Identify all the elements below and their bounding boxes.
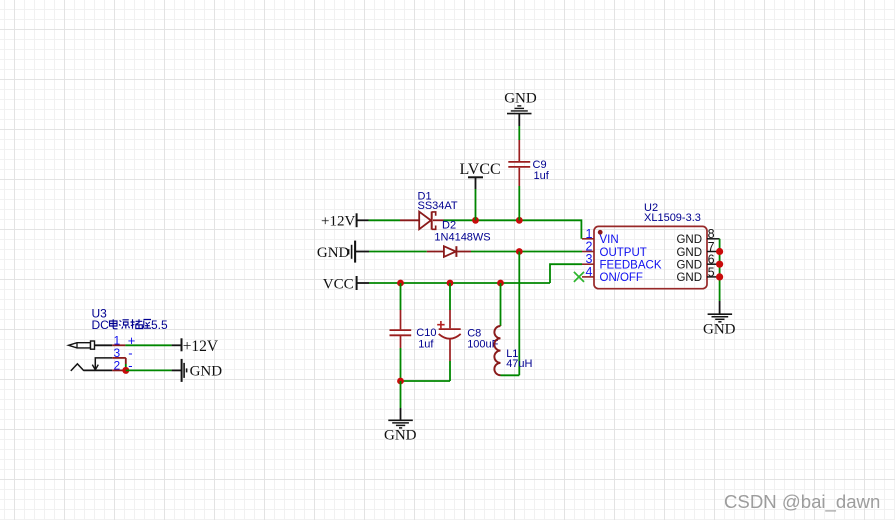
wire L1 top from rail (500, 283, 502, 326)
pin1 indicator dot (598, 230, 603, 235)
capacitor C10 lead bottom (400, 336, 402, 348)
diode D1 SS34AT body (419, 212, 436, 230)
wire stub GND (right) (172, 369, 181, 371)
svg-text:OUTPUT: OUTPUT (600, 247, 647, 259)
pin stub U2 pin1 (582, 238, 594, 240)
svg-text:VIN: VIN (600, 234, 619, 246)
wire +12V to D1 (369, 219, 401, 221)
junction dot pin7 (716, 248, 723, 255)
junction dot at switch node top (516, 217, 523, 224)
port bar +12V (right) (181, 338, 183, 351)
wire LVCC junction to C9 junction (476, 219, 520, 221)
pin lead U3 pin2 (112, 369, 126, 371)
pin stub U2 pin8 (707, 238, 720, 240)
wire U3 pin1 to +12V (125, 344, 171, 346)
capacitor C9 lead bottom (518, 168, 520, 186)
svg-text:GND: GND (676, 272, 702, 284)
wire C8 bottom to bottom wire (449, 361, 451, 381)
svg-text:2: 2 (114, 358, 121, 372)
svg-text:GND: GND (317, 245, 350, 261)
diode D1 lead anode (400, 219, 419, 221)
junction dot pin6 (716, 261, 723, 268)
diode D1 lead cathode (433, 219, 444, 221)
junction dot bottom GND node (397, 378, 404, 385)
junction dot at LVCC (472, 217, 479, 224)
capacitor C8 plate curved (439, 334, 461, 339)
wire VCC rail (369, 282, 550, 284)
junction dot U3 pin2/3 (122, 367, 129, 374)
capacitor C8 plate straight (439, 328, 461, 330)
pin stub U2 pin5 (707, 276, 720, 278)
no-connect X on pin4 (574, 272, 584, 282)
svg-text:FEEDBACK: FEEDBACK (600, 260, 662, 272)
wire C9 to +12V rail (518, 186, 520, 220)
wire stub VCC (357, 282, 369, 284)
ground port bars (left GND) (349, 241, 356, 263)
wire stub LVCC (475, 177, 477, 189)
svg-text:5.5: 5.5 (151, 318, 168, 332)
pin stub U2 pin3 (582, 263, 594, 265)
wire U2 GND pins vertical (719, 239, 721, 301)
wire U3 pin2 to GND (126, 369, 172, 371)
wire OUTPUT junction to U2 pin2 (519, 251, 582, 253)
svg-text:5: 5 (708, 265, 715, 279)
svg-text:GND: GND (384, 428, 417, 444)
svg-text:1uf: 1uf (418, 338, 434, 350)
inductor L1 coil (494, 326, 500, 375)
wire C9 junction to corner (519, 220, 581, 239)
junction dot C8 top (447, 280, 454, 287)
svg-text:C9: C9 (533, 159, 547, 171)
svg-text:D2: D2 (442, 219, 456, 231)
pin lead U3 pin1 (112, 344, 125, 346)
wire stub top GND (518, 114, 520, 126)
svg-text:1N4148WS: 1N4148WS (434, 232, 490, 244)
wire bottom C10-C8 (401, 380, 451, 382)
svg-text:+12V: +12V (321, 214, 355, 230)
ground flag GND (U2 right) (708, 314, 733, 322)
capacitor C8 lead bottom (449, 339, 451, 361)
ground port bars (right GND) (182, 359, 187, 382)
connector U3 pin2 spring contact (71, 364, 84, 371)
ground flag GND (top, inverted) (507, 106, 532, 114)
wire top GND to C9 (518, 126, 520, 140)
wire D2 to OUTPUT junction (471, 251, 519, 253)
pin stub U2 pin7 (707, 251, 720, 253)
svg-text:GND: GND (676, 247, 702, 259)
connector U3 pin1 line (95, 344, 113, 346)
svg-text:GND: GND (676, 260, 702, 272)
port bar LVCC (468, 176, 483, 178)
svg-text:LVCC: LVCC (460, 161, 501, 178)
pin lead U3 pin3-pin2 vertical (125, 358, 127, 364)
svg-text:47uH: 47uH (506, 358, 532, 370)
svg-text:GND: GND (504, 91, 537, 107)
diode D2 lead cathode (457, 251, 471, 253)
ground flag GND (bottom) (388, 420, 413, 428)
hanzi glyph zuo (143, 320, 151, 330)
svg-text:C10: C10 (416, 327, 436, 339)
hanzi glyph cha (131, 319, 143, 329)
svg-text:SS34AT: SS34AT (418, 200, 458, 212)
junction dot switch node at D2 row (516, 248, 523, 255)
capacitor C9 lead top (518, 140, 520, 161)
svg-text:GND: GND (676, 234, 702, 246)
junction dot pin5 (716, 273, 723, 280)
svg-text:1uf: 1uf (534, 170, 550, 182)
wire VCC rail up jog to FEEDBACK (550, 264, 582, 283)
wire C10 top from rail (400, 283, 402, 310)
svg-text:+12V: +12V (183, 338, 219, 355)
port bar +12V (left) (356, 213, 358, 227)
svg-text:4: 4 (586, 265, 593, 279)
connector U3 barrel pin (69, 341, 95, 349)
wire stub +12V port (357, 219, 369, 221)
wire stub bottom GND (400, 408, 402, 420)
capacitor C10 lead top (400, 310, 402, 329)
hanzi glyph dian (110, 319, 118, 329)
svg-text:GND: GND (190, 364, 223, 380)
diode D2 1N4148WS body (444, 246, 457, 257)
wire stub left GND (356, 251, 370, 253)
port bar VCC (356, 276, 358, 290)
connector U3 pin2 line (84, 369, 112, 371)
pin stub U2 pin2 (582, 251, 594, 253)
pin lead U3 pin3 (112, 357, 126, 359)
svg-text:ON/OFF: ON/OFF (600, 272, 643, 284)
wire C8 top from rail (449, 283, 451, 310)
svg-text:VCC: VCC (323, 276, 354, 292)
wire C10 bottom to GND junction (400, 348, 402, 381)
svg-text:GND: GND (703, 321, 736, 337)
pin stub U2 pin6 (707, 263, 720, 265)
svg-text:CSDN @bai_dawn: CSDN @bai_dawn (724, 491, 880, 513)
wire LVCC down to +12V rail (475, 189, 477, 220)
wire switch node vertical down to L1 bottom (518, 252, 520, 376)
IC U2 XL1509-3.3 body (594, 226, 707, 288)
svg-text:XL1509-3.3: XL1509-3.3 (644, 212, 701, 224)
connector U3 pin3 switch arm (92, 358, 112, 370)
junction dot C10 top (397, 280, 404, 287)
wire stub U2 GND flag (719, 301, 721, 314)
capacitor C10 plates (390, 330, 412, 335)
wire D1 to LVCC junction (444, 219, 476, 221)
hanzi glyph yuan (119, 320, 130, 329)
pin stub U2 pin4 (582, 276, 594, 278)
capacitor C8 lead top (449, 310, 451, 328)
wire bottom node to GND flag (400, 381, 402, 408)
wire U3 pin3 to pin2 (green part) (125, 364, 127, 370)
diode D2 lead anode (427, 251, 444, 253)
capacitor C9 plates (508, 162, 530, 167)
wire GND to D2 (369, 251, 427, 253)
svg-text:DC: DC (92, 318, 110, 332)
capacitor C8 plus sign (437, 321, 444, 328)
junction dot L1 top (497, 280, 504, 287)
wire stub +12V (right) (172, 344, 181, 346)
wire L1 bottom to switch node vertical (501, 374, 520, 376)
